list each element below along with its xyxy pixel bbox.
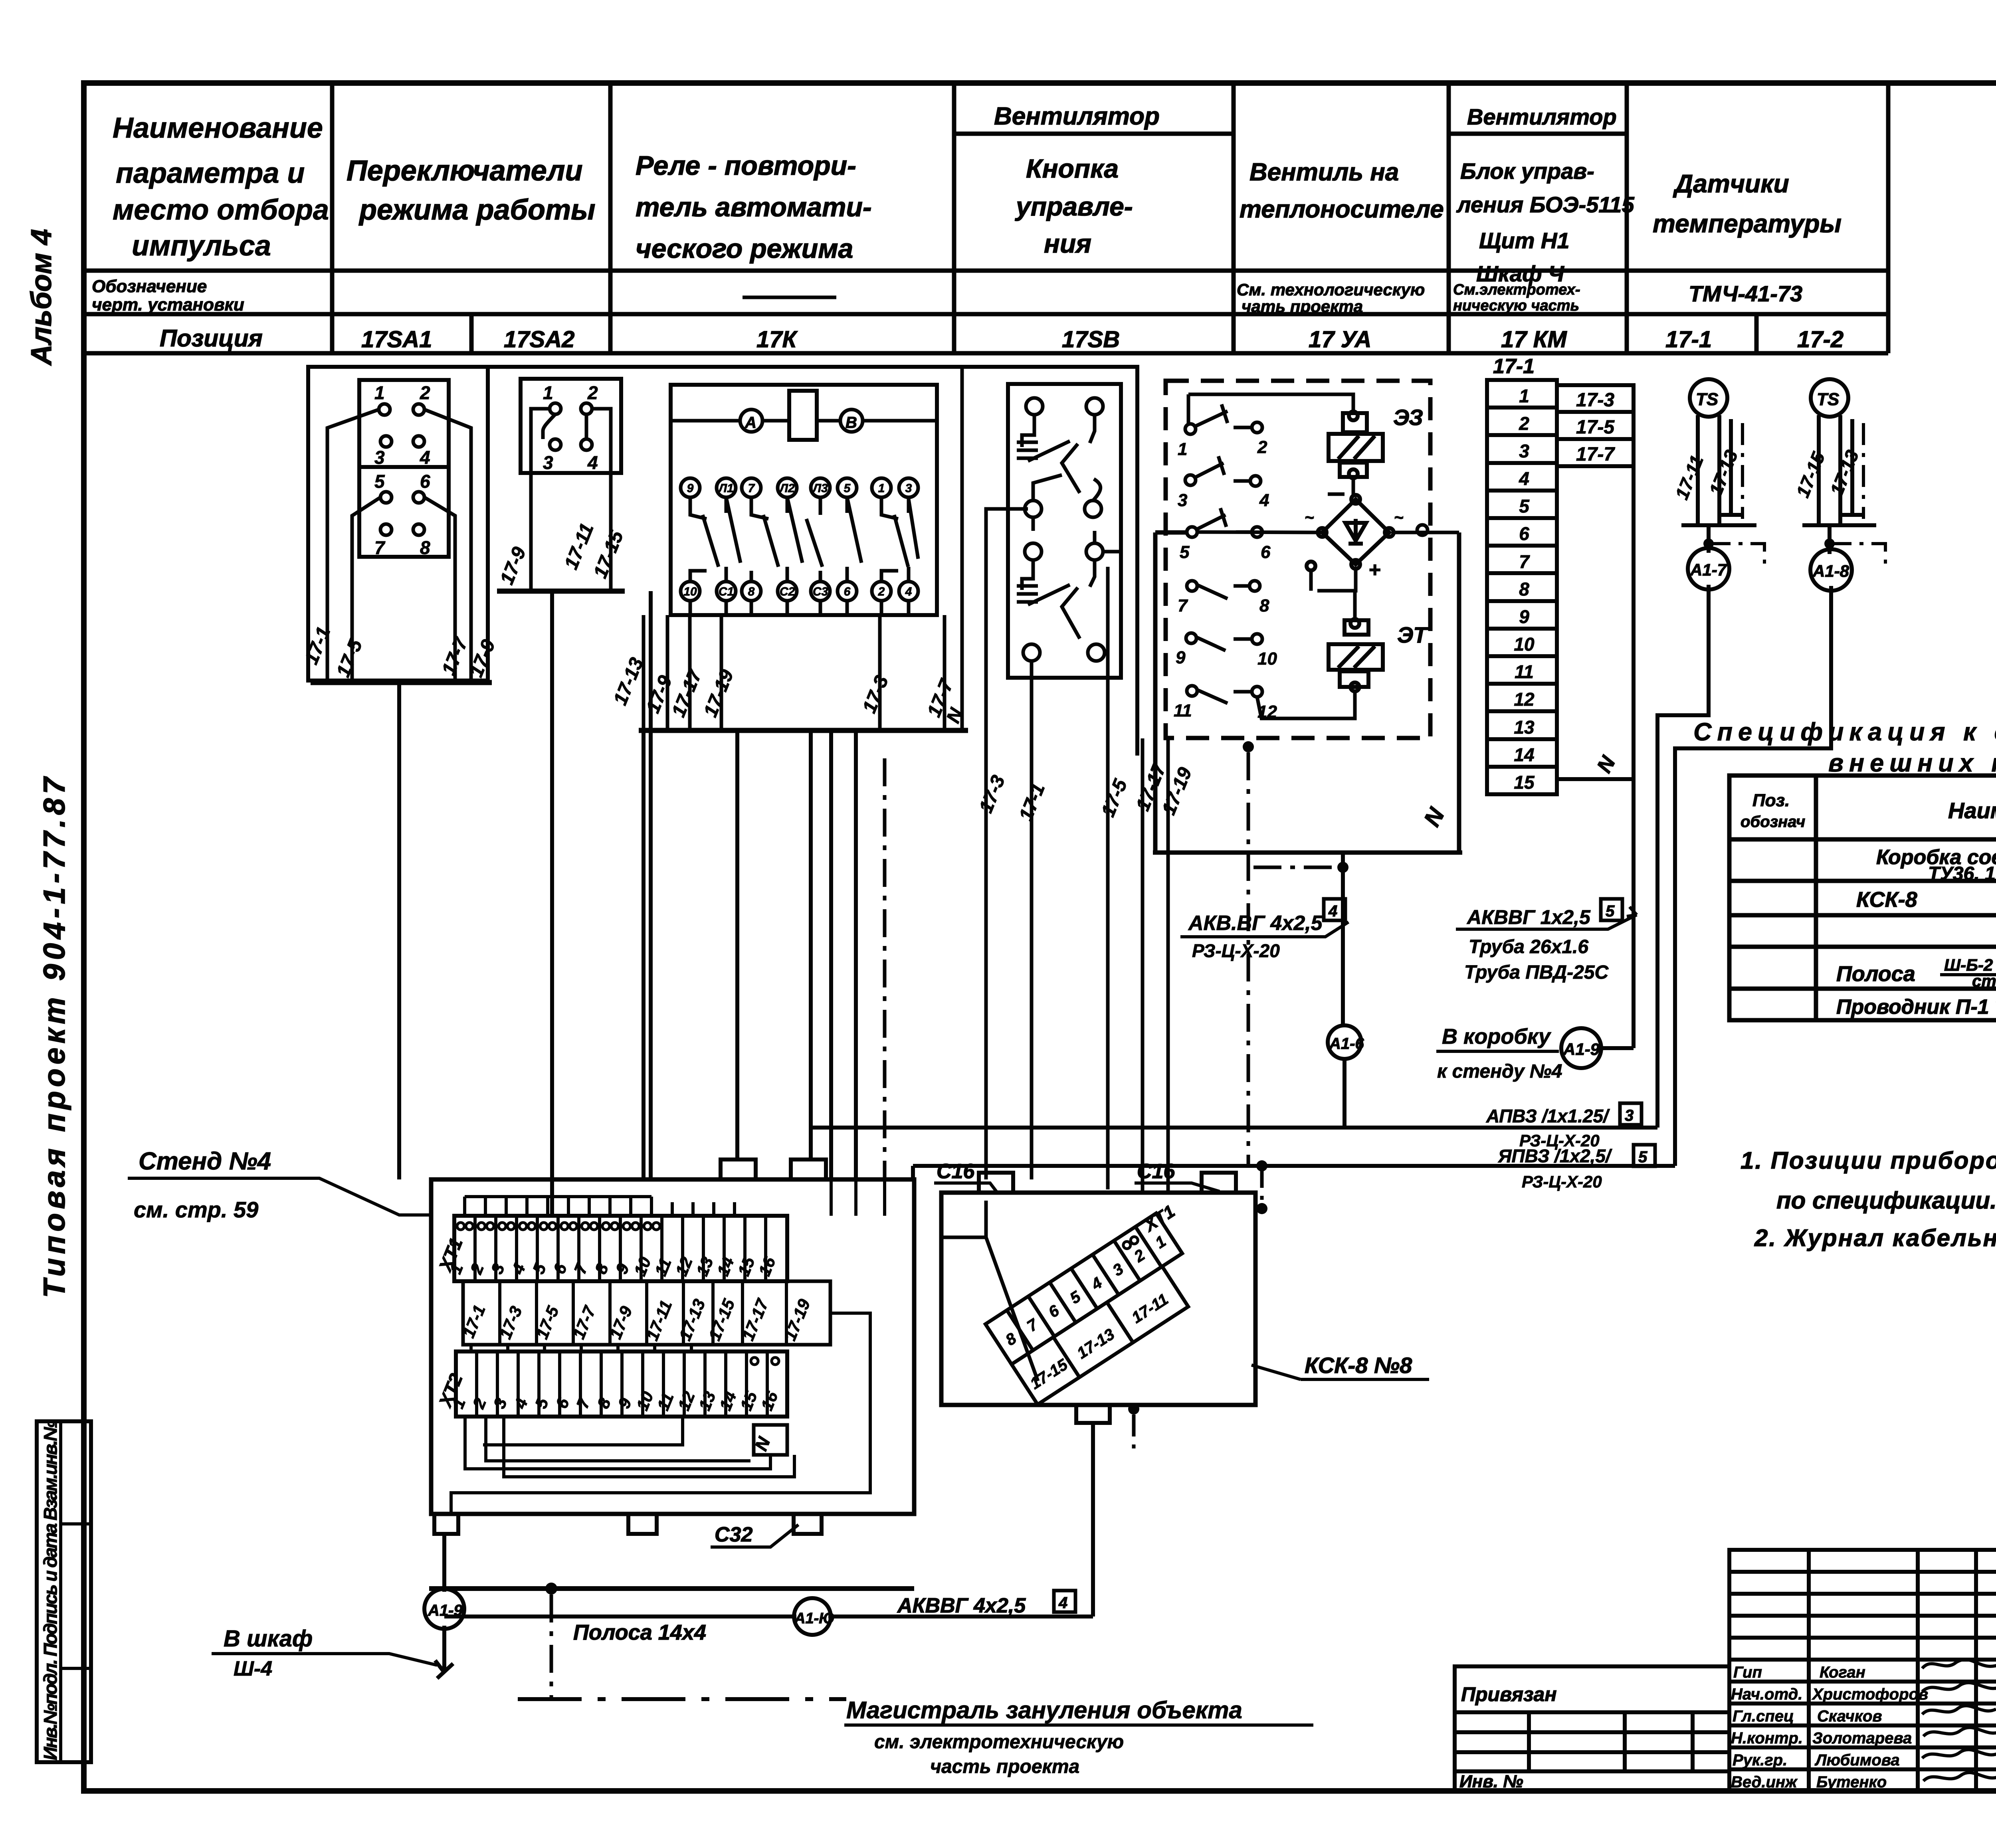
svg-text:В: В: [846, 414, 857, 431]
wire from A1-7 down-left: [1657, 585, 1709, 1128]
stand No4 callout: [134, 1148, 271, 1222]
svg-text:место отбора: место отбора: [113, 194, 329, 226]
svg-text:А1-9: А1-9: [1563, 1040, 1600, 1059]
wire marker A1-9 (to box) label: [1437, 1025, 1562, 1082]
switch 17SA1 bottom rail: [311, 680, 492, 685]
svg-text:8: 8: [1259, 596, 1269, 615]
svg-text:17SB: 17SB: [1062, 326, 1120, 352]
long wire from 17SA1 to stand: [397, 683, 401, 1179]
svg-text:С16: С16: [1137, 1160, 1175, 1183]
svg-text:Привязан: Привязан: [1461, 1683, 1557, 1706]
svg-text:Л1: Л1: [718, 482, 733, 495]
spec table grid: [1729, 776, 1996, 1020]
svg-text:1. Позиции приборов и аппара: 1. Позиции приборов и аппаратуры указаны: [1741, 1147, 1996, 1174]
svg-text:ническую часть: ническую часть: [1453, 297, 1579, 314]
cable size tag 5: [1601, 899, 1622, 920]
svg-text:6: 6: [844, 585, 851, 598]
svg-text:3: 3: [1625, 1107, 1634, 1124]
top interconnect wire: [308, 367, 1137, 756]
dash-dot drop from bus junction: [550, 1595, 553, 1699]
button 17SB outgoing wires: [986, 509, 1121, 1189]
terminal strip XT1: [454, 1216, 787, 1281]
svg-text:АКВВГ 1х2,5: АКВВГ 1х2,5: [1466, 906, 1591, 928]
svg-text:Полоса: Полоса: [1836, 962, 1915, 986]
svg-text:7: 7: [374, 537, 386, 558]
svg-text:8: 8: [1519, 579, 1529, 600]
svg-text:17-5: 17-5: [1576, 417, 1615, 438]
svg-text:ЭТ: ЭТ: [1397, 622, 1429, 647]
svg-text:ст3кп ГОСТ 6422-76: ст3кп ГОСТ 6422-76: [1972, 971, 1996, 990]
svg-text:1: 1: [878, 482, 885, 495]
wire from A1-9 to V1: [1599, 1046, 1634, 1050]
svg-text:внешних проводок: внешних проводок: [1828, 749, 1996, 777]
cable label APV3 1x1.25: [1486, 1106, 1612, 1191]
temperature sensor TS1: [1681, 379, 1756, 525]
node label row under XT1: [463, 1281, 830, 1345]
svg-text:Инв.№подл. Подпись и дата Взам: Инв.№подл. Подпись и дата Взам.инв.№: [40, 1420, 61, 1760]
svg-text:по спецификации... А08.00.С0: по спецификации... А08.00.С01.: [1776, 1187, 1996, 1214]
svg-text:2: 2: [1519, 413, 1529, 434]
wires from relay rail to stand top: [831, 730, 856, 1179]
cable size tag 5b: [1634, 1145, 1655, 1166]
cable size tag 4b: [1054, 1591, 1075, 1612]
cable marker A1-6: [1328, 1025, 1361, 1059]
cable size tag 3: [1620, 1103, 1642, 1125]
svg-text:АКВВГ 4х2,5: АКВВГ 4х2,5: [897, 1594, 1026, 1617]
svg-text:7: 7: [748, 482, 755, 495]
relay 17K bottom rail: [639, 728, 968, 733]
svg-text:13: 13: [1514, 717, 1535, 738]
switch 17SA1 wires: [327, 410, 471, 681]
svg-text:6: 6: [1519, 523, 1529, 544]
svg-text:см. электротехническую: см. электротехническую: [874, 1731, 1124, 1753]
svg-text:5: 5: [1638, 1148, 1647, 1166]
svg-text:7: 7: [1178, 596, 1188, 615]
svg-text:Ш-4: Ш-4: [234, 1657, 272, 1680]
svg-text:9: 9: [1176, 648, 1186, 667]
KCK-8 corner wires: [941, 1201, 1038, 1381]
junction on H2 at C16: [1256, 1160, 1267, 1171]
relay 17K terminal labels: [683, 482, 912, 598]
svg-text:импульса: импульса: [132, 230, 271, 262]
wire from A1-8 down-left: [1675, 586, 1831, 1166]
svg-text:4: 4: [587, 452, 598, 473]
stand bottom connector bumps: [434, 1514, 822, 1534]
svg-text:Н.контр.: Н.контр.: [1731, 1729, 1803, 1747]
svg-text:Наименование: Наименование: [1948, 798, 1996, 823]
svg-text:А1-Ю: А1-Ю: [794, 1610, 835, 1627]
svg-text:2: 2: [420, 382, 430, 403]
KCK-8 bottom bump: [1076, 1405, 1110, 1423]
C16 bump A: [979, 1173, 1013, 1193]
sensor TS1 junction: [1703, 538, 1714, 549]
dash-dot link to junction: [1253, 866, 1343, 869]
svg-text:режима работы: режима работы: [358, 194, 595, 226]
switch 17SA1 wire labels: [301, 624, 499, 680]
switch 17SA2 bottom rail: [497, 589, 625, 594]
svg-text:Бутенко: Бутенко: [1816, 1773, 1887, 1791]
relay 17K box: [671, 385, 937, 615]
button 17SB box: [1008, 384, 1121, 678]
svg-text:4: 4: [1328, 902, 1337, 920]
svg-text:9: 9: [1519, 606, 1529, 627]
svg-text:6: 6: [420, 471, 430, 492]
svg-text:5: 5: [1519, 496, 1530, 516]
svg-text:Стенд №4: Стенд №4: [139, 1148, 271, 1175]
temperature sensor TS2: [1802, 379, 1876, 525]
svg-text:1: 1: [1519, 386, 1529, 406]
wire from A1-6 to route line: [1343, 1059, 1347, 1128]
switch 17SA2 box: [521, 379, 621, 473]
svg-text:3: 3: [905, 482, 912, 495]
node boxes 17-3 17-5 17-7: [1557, 385, 1634, 466]
sensor TS2 junction: [1824, 538, 1835, 549]
svg-text:А: А: [745, 414, 756, 431]
svg-text:теплоносителе: теплоносителе: [1240, 196, 1444, 223]
svg-text:Труба ПВД-25С: Труба ПВД-25С: [1464, 962, 1609, 983]
relay 17K coil circle B: [840, 410, 863, 432]
spec heading: [1693, 718, 1996, 777]
svg-text:РЗ-Ц-Х-20: РЗ-Ц-Х-20: [1522, 1172, 1602, 1191]
svg-text:2: 2: [587, 382, 598, 403]
svg-text:ТУ36. 1753-75: ТУ36. 1753-75: [1928, 863, 1996, 884]
svg-text:Переключатели: Переключатели: [347, 155, 582, 187]
svg-text:2. Журнал кабельных проводок: 2. Журнал кабельных проводок- лист 12: [1754, 1225, 1996, 1251]
dash in relay column row2: [743, 296, 836, 299]
svg-text:17-3: 17-3: [1576, 390, 1614, 411]
wire 17-19 vertical to junction box: [1166, 738, 1170, 1193]
svg-text:2: 2: [1257, 437, 1267, 457]
svg-text:Блок управ-: Блок управ-: [1460, 158, 1594, 184]
valve unit 17UA dashed enclosure: [1166, 381, 1430, 738]
ground bus at stand bottom: [429, 1586, 914, 1591]
sensor TS2 wire labels: [1792, 447, 1863, 501]
terminal strip XT2: [456, 1351, 787, 1417]
route line H2: [913, 1166, 1675, 1179]
stand No4 enclosure: [431, 1179, 914, 1514]
svg-text:ЯПВЗ /1х2,5/: ЯПВЗ /1х2,5/: [1498, 1146, 1612, 1166]
terminal block 17KM: [1487, 380, 1557, 794]
svg-text:Гип: Гип: [1733, 1664, 1762, 1681]
wire from relay rail to route line H1: [809, 730, 813, 1159]
svg-text:8: 8: [748, 585, 755, 598]
svg-text:1: 1: [1178, 439, 1187, 459]
signature squiggles: [1922, 1660, 1996, 1781]
stand internal wiring: [451, 1179, 885, 1514]
svg-text:3: 3: [374, 447, 385, 468]
svg-text:ческого режима: ческого режима: [636, 233, 853, 264]
svg-text:15: 15: [1514, 772, 1535, 793]
svg-text:Вентилятор: Вентилятор: [1467, 104, 1617, 129]
relay 17K coil rectangle: [789, 391, 817, 440]
svg-text:10: 10: [683, 585, 697, 598]
svg-text:9: 9: [687, 482, 694, 495]
button 17SB contact symbols: [1017, 415, 1101, 639]
svg-text:Вентилятор: Вентилятор: [994, 103, 1160, 130]
cable label AKV.VG 4x2.5: [1188, 912, 1323, 961]
cabinet callout: [224, 1626, 313, 1680]
junction on ground bus: [545, 1583, 557, 1595]
svg-text:11: 11: [1515, 661, 1534, 682]
valve unit outer solid boundary: [1153, 532, 1462, 853]
svg-text:Датчики: Датчики: [1673, 169, 1789, 198]
svg-text:см. стр. 59: см. стр. 59: [134, 1197, 258, 1222]
svg-text:17-2: 17-2: [1797, 326, 1844, 352]
relay 17K contact terminals top row: [681, 478, 918, 497]
switch 17SA1 terminals: [379, 404, 424, 535]
svg-text:Щит Н1: Щит Н1: [1479, 228, 1570, 253]
svg-text:КСК-8: КСК-8: [1856, 888, 1917, 912]
cable marker A1-9 right: [1561, 1028, 1601, 1068]
svg-text:ТS: ТS: [1696, 390, 1718, 409]
XT1 incoming stubs: [465, 1197, 735, 1216]
svg-text:Типовая проект 904-1-77.87: Типовая проект 904-1-77.87: [38, 774, 71, 1298]
svg-text:17К: 17К: [756, 326, 798, 352]
junction box KCK-8: [941, 1193, 1255, 1405]
svg-text:10: 10: [1257, 649, 1277, 669]
wire 17-13 from relay rail down: [642, 730, 646, 1179]
svg-text:тель автомати-: тель автомати-: [636, 192, 872, 222]
svg-text:12: 12: [1514, 689, 1535, 710]
svg-text:Золотарева: Золотарева: [1812, 1729, 1912, 1747]
long wire from 17SA2 pin4 to stand: [649, 591, 653, 1179]
svg-text:ния: ния: [1044, 229, 1091, 258]
svg-text:3: 3: [543, 452, 553, 473]
svg-text:Христофоров: Христофоров: [1812, 1686, 1928, 1703]
svg-text:10: 10: [1514, 634, 1535, 655]
svg-text:Обозначение: Обозначение: [92, 277, 207, 296]
arrow to wire V1: [1627, 907, 1637, 916]
svg-text:11: 11: [1174, 701, 1192, 720]
svg-text:А1-8: А1-8: [1812, 562, 1849, 580]
valve unit 17UA contact numbers: [1174, 437, 1277, 722]
switch 17SA1 outer box: [308, 367, 488, 681]
relay 17K extra blades: [726, 497, 918, 563]
svg-text:Поз.: Поз.: [1752, 791, 1790, 810]
stand top connector bump 2: [791, 1159, 826, 1179]
sensor TS1 wire labels: [1671, 447, 1742, 503]
svg-text:5: 5: [1606, 902, 1615, 920]
XT2 contact dots on cells 15-16: [751, 1357, 758, 1365]
svg-text:АПВЗ /1х1.25/: АПВЗ /1х1.25/: [1486, 1106, 1610, 1126]
wire V1 from 17KM down to box note: [1632, 466, 1636, 1048]
svg-text:С32: С32: [715, 1523, 752, 1546]
wire from KCK-8 down: [1091, 1423, 1095, 1617]
svg-text:температуры: температуры: [1653, 209, 1842, 238]
N net label near valve unit: [1419, 803, 1450, 831]
cable marker A1-9 left: [424, 1589, 464, 1629]
album label (rotated, left margin): [26, 229, 57, 366]
relay 17K coil wiring: [671, 419, 937, 423]
svg-text:5: 5: [844, 482, 851, 495]
svg-text:ления БОЭ-5115: ления БОЭ-5115: [1456, 192, 1634, 217]
node N box under XT2: [754, 1425, 787, 1455]
wire from stand to cabinet: [442, 1534, 446, 1592]
svg-text:Реле - повтори-: Реле - повтори-: [636, 150, 856, 181]
terminal block 17KM numbers: [1514, 386, 1535, 793]
svg-text:17 УА: 17 УА: [1309, 326, 1371, 352]
svg-text:5: 5: [374, 471, 385, 492]
svg-text:~: ~: [1305, 509, 1314, 526]
signature table: [1729, 1550, 1996, 1791]
svg-text:Альбом 4: Альбом 4: [26, 229, 57, 366]
svg-text:В шкаф: В шкаф: [224, 1626, 313, 1652]
svg-text:обознач: обознач: [1741, 813, 1805, 831]
svg-text:Л3: Л3: [812, 482, 828, 495]
svg-text:~: ~: [1394, 509, 1403, 526]
project label (rotated, left margin): [38, 774, 71, 1298]
dash-dot from H2 junction to box: [1260, 1166, 1264, 1209]
svg-text:Л2: Л2: [779, 482, 795, 495]
svg-text:17-7: 17-7: [1576, 444, 1615, 465]
relay 17K contact terminals bottom row: [681, 582, 918, 601]
svg-text:параметра и: параметра и: [116, 157, 305, 189]
svg-text:ТS: ТS: [1817, 390, 1839, 409]
solenoid ET: [1329, 619, 1383, 691]
svg-text:См.электротех-: См.электротех-: [1453, 281, 1580, 298]
svg-text:14: 14: [1514, 744, 1534, 765]
junction below valve unit: [1337, 862, 1348, 873]
svg-text:АКВ.ВГ 4х2,5: АКВ.ВГ 4х2,5: [1188, 912, 1323, 935]
svg-text:8: 8: [420, 537, 430, 558]
svg-text:Проводник П-1 ТУ36.1276-76: Проводник П-1 ТУ36.1276-76: [1836, 995, 1996, 1019]
svg-text:КСК-8 №8: КСК-8 №8: [1305, 1353, 1412, 1378]
svg-text:ТМЧ-41-73: ТМЧ-41-73: [1689, 281, 1802, 306]
svg-text:3: 3: [1519, 441, 1529, 461]
route line H1: [811, 1126, 1657, 1130]
cable route dash-dot down from valve unit: [1247, 752, 1250, 1166]
svg-text:Наименование: Наименование: [113, 112, 323, 144]
switch 17SA2 pin numbers: [543, 382, 598, 473]
cable marker A1-8: [1828, 525, 1832, 554]
switch 17SA2 wire labels: [496, 520, 628, 588]
terminal strip XT1 label: [434, 1235, 467, 1275]
svg-text:С3: С3: [813, 585, 828, 598]
svg-text:17SA1: 17SA1: [361, 326, 432, 352]
junction dot at KCK-8 bottom: [1128, 1403, 1139, 1415]
relay 17K coil circle A: [740, 410, 762, 432]
svg-text:1: 1: [374, 382, 385, 403]
wire 17-17 vertical to junction box: [1141, 738, 1145, 1193]
svg-text:часть проекта: часть проекта: [930, 1756, 1079, 1777]
terminal strip XT2 label: [434, 1371, 467, 1411]
switch 17SA1 pin numbers: [374, 382, 430, 558]
valve unit 17UA contact pairs: [1185, 422, 1262, 697]
grounding main dash-dot: [518, 1697, 846, 1701]
svg-text:Скачков: Скачков: [1817, 1708, 1882, 1725]
stand top connector bump 1: [721, 1159, 756, 1179]
svg-text:Инв. №: Инв. №: [1459, 1772, 1523, 1791]
wire N from cell 15: [1557, 777, 1634, 781]
svg-text:4: 4: [1519, 468, 1529, 489]
svg-text:С2: С2: [780, 585, 795, 598]
switch 17SA1 connector block: [359, 380, 449, 557]
grounding main callout: [846, 1697, 1242, 1777]
wire from valve unit to A1-6: [1341, 853, 1345, 1025]
svg-text:Гл.спец: Гл.спец: [1733, 1708, 1794, 1725]
svg-text:Нач.отд.: Нач.отд.: [1731, 1686, 1802, 1703]
svg-text:Рук.гр.: Рук.гр.: [1733, 1751, 1787, 1769]
svg-text:В коробку: В коробку: [1442, 1025, 1552, 1049]
valve unit internal wiring: [1188, 394, 1459, 718]
svg-text:Спецификация к схеме соединени: Спецификация к схеме соединений: [1693, 718, 1996, 746]
header table grid: [84, 83, 1888, 353]
relay 17K wire labels: [610, 655, 968, 726]
dash-dot route wire to stand: [883, 758, 887, 1179]
wire with arrow to cabinet: [435, 1626, 453, 1678]
svg-text:А1-7: А1-7: [1690, 560, 1727, 579]
svg-text:Труба 26х1.6: Труба 26х1.6: [1469, 936, 1588, 958]
bridge rectifier: [1307, 495, 1394, 570]
long wire from 17SA2 pin3 to stand: [550, 591, 554, 1216]
svg-text:Позиция: Позиция: [160, 325, 263, 352]
svg-text:Вед.инж: Вед.инж: [1731, 1773, 1798, 1791]
svg-text:1: 1: [543, 382, 553, 403]
valve unit 17UA contact blades: [1195, 404, 1252, 703]
C16 bump B: [1202, 1173, 1236, 1193]
svg-text:3: 3: [1178, 491, 1187, 510]
svg-text:17-1: 17-1: [1493, 355, 1535, 378]
switch 17SA2 terminals: [550, 403, 592, 450]
dash-dot from KCK-8 junction: [1132, 1415, 1136, 1453]
signature table names: [1731, 1664, 1928, 1791]
svg-text:ЭЗ: ЭЗ: [1393, 405, 1423, 430]
svg-text:6: 6: [1261, 542, 1271, 562]
relay 17K outgoing wires: [644, 367, 962, 730]
svg-text:Кнопка: Кнопка: [1026, 154, 1119, 183]
terminal strip XT1 contact dots: [457, 1223, 660, 1230]
svg-text:4: 4: [1058, 1594, 1067, 1612]
svg-text:А1-6: А1-6: [1329, 1035, 1364, 1053]
switch 17SA2 wires: [531, 409, 611, 591]
long wire from relay rail to stand bump: [735, 730, 739, 1159]
linked-project table: [1455, 1666, 1729, 1791]
svg-text:Любимова: Любимова: [1814, 1751, 1900, 1769]
svg-text:4: 4: [420, 447, 430, 468]
junction on dashed boundary: [1243, 741, 1254, 752]
svg-text:5: 5: [1180, 542, 1190, 562]
svg-text:4: 4: [1259, 491, 1269, 510]
svg-text:17 КМ: 17 КМ: [1501, 326, 1567, 352]
svg-text:управле-: управле-: [1015, 192, 1133, 221]
button 17SB terminals: [1023, 398, 1105, 661]
svg-text:Магистраль зануления объекта: Магистраль зануления объекта: [846, 1697, 1242, 1723]
svg-text:С1: С1: [719, 585, 734, 598]
terminal strip XT1 numbers: [446, 1254, 779, 1279]
svg-text:2: 2: [878, 585, 885, 598]
svg-text:С16: С16: [937, 1160, 975, 1183]
svg-text:+: +: [1368, 558, 1380, 582]
svg-text:17-1: 17-1: [1665, 326, 1712, 352]
button 17SB wire labels: [975, 760, 1196, 824]
solenoid EZ: [1329, 412, 1383, 478]
cable marker A1-10: [444, 1615, 1093, 1618]
cable size tag 4: [1324, 899, 1345, 920]
svg-text:7: 7: [1519, 551, 1530, 572]
KCK-8 rotated connector: [984, 1201, 1222, 1405]
svg-text:4: 4: [905, 585, 912, 598]
svg-text:Вентиль на: Вентиль на: [1249, 158, 1399, 186]
svg-text:черт. установки: черт. установки: [92, 295, 244, 315]
svg-text:РЗ-Ц-Х-20: РЗ-Ц-Х-20: [1192, 940, 1280, 961]
svg-text:Полоса 14х4: Полоса 14х4: [573, 1620, 706, 1644]
svg-text:чать проекта: чать проекта: [1242, 297, 1363, 316]
terminal strip XT2 numbers: [448, 1389, 782, 1413]
cable label AKVVG 1x2.5 with pipes: [1464, 906, 1609, 983]
margin stamp strip: [37, 1420, 91, 1762]
cable marker A1-7: [1707, 525, 1711, 553]
relay 17K contact blades: [690, 497, 909, 582]
